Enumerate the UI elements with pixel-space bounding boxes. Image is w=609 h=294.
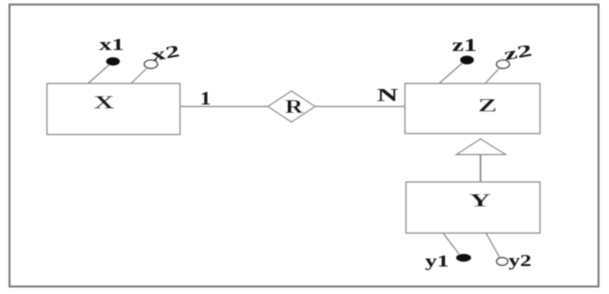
svg-text:z1: z1 [452, 35, 477, 55]
svg-text:R: R [285, 96, 304, 118]
svg-text:1: 1 [200, 88, 211, 109]
svg-text:y1: y1 [425, 252, 449, 271]
svg-text:y2: y2 [509, 251, 532, 270]
svg-text:X: X [94, 92, 115, 113]
svg-text:Z: Z [478, 96, 497, 117]
svg-text:x1: x1 [99, 35, 124, 54]
svg-text:N: N [377, 85, 398, 105]
svg-text:Y: Y [469, 191, 491, 212]
